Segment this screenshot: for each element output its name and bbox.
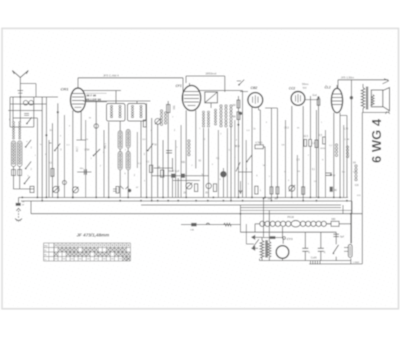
svg-text:P618: P618 xyxy=(287,215,294,219)
svg-text:50E: 50E xyxy=(181,162,186,164)
svg-text:ČL2: ČL2 xyxy=(325,85,331,90)
svg-text:JF 473/1,48mm: JF 473/1,48mm xyxy=(77,233,110,238)
svg-text:JF5 C.Afd 4: JF5 C.Afd 4 xyxy=(103,73,119,77)
svg-text:CR1: CR1 xyxy=(61,87,70,92)
svg-text:1.MAX: 1.MAX xyxy=(353,261,360,264)
svg-text:1M: 1M xyxy=(232,105,235,107)
svg-text:56mF CuF: 56mF CuF xyxy=(169,171,180,173)
svg-text:CF1: CF1 xyxy=(176,84,182,88)
svg-text:6μF: 6μF xyxy=(340,236,345,239)
svg-text:2,3M: 2,3M xyxy=(344,139,349,141)
svg-text:Ku: Ku xyxy=(44,250,46,252)
svg-text:680: 680 xyxy=(331,218,336,221)
svg-text:550: 550 xyxy=(172,106,175,111)
svg-text:Cu06: Cu06 xyxy=(311,257,318,260)
svg-text:4,7MΩ: 4,7MΩ xyxy=(255,141,262,144)
svg-text:TFF: TFF xyxy=(302,88,307,90)
svg-text:38,3: 38,3 xyxy=(235,145,240,148)
svg-text:5m: 5m xyxy=(342,172,345,174)
svg-text:Gud: Gud xyxy=(312,94,317,97)
svg-text:10,5: 10,5 xyxy=(304,136,309,138)
svg-text:12A: 12A xyxy=(190,229,194,232)
svg-text:CY1: CY1 xyxy=(287,237,293,241)
svg-text:CC2: CC2 xyxy=(289,86,296,90)
svg-text:1,5M: 1,5M xyxy=(103,143,106,149)
svg-text:56mu: 56mu xyxy=(302,82,309,86)
svg-text:1,5M: 1,5M xyxy=(75,147,77,152)
svg-text:1M: 1M xyxy=(281,144,284,146)
svg-text:1,70: 1,70 xyxy=(344,129,349,131)
svg-text:6 WG 4: 6 WG 4 xyxy=(369,118,384,163)
svg-text:Wel: Wel xyxy=(44,245,48,247)
svg-text:m: m xyxy=(284,172,286,174)
svg-text:JF5 1,50m: JF5 1,50m xyxy=(341,76,355,80)
svg-text:3,: 3, xyxy=(324,250,327,254)
svg-text:3,: 3, xyxy=(308,250,311,254)
svg-text:1,5M: 1,5M xyxy=(84,150,89,152)
svg-text:2M: 2M xyxy=(232,117,235,119)
svg-text:CB2: CB2 xyxy=(251,86,258,90)
svg-text:2853md: 2853md xyxy=(206,72,217,76)
svg-text:28,3: 28,3 xyxy=(284,127,289,129)
